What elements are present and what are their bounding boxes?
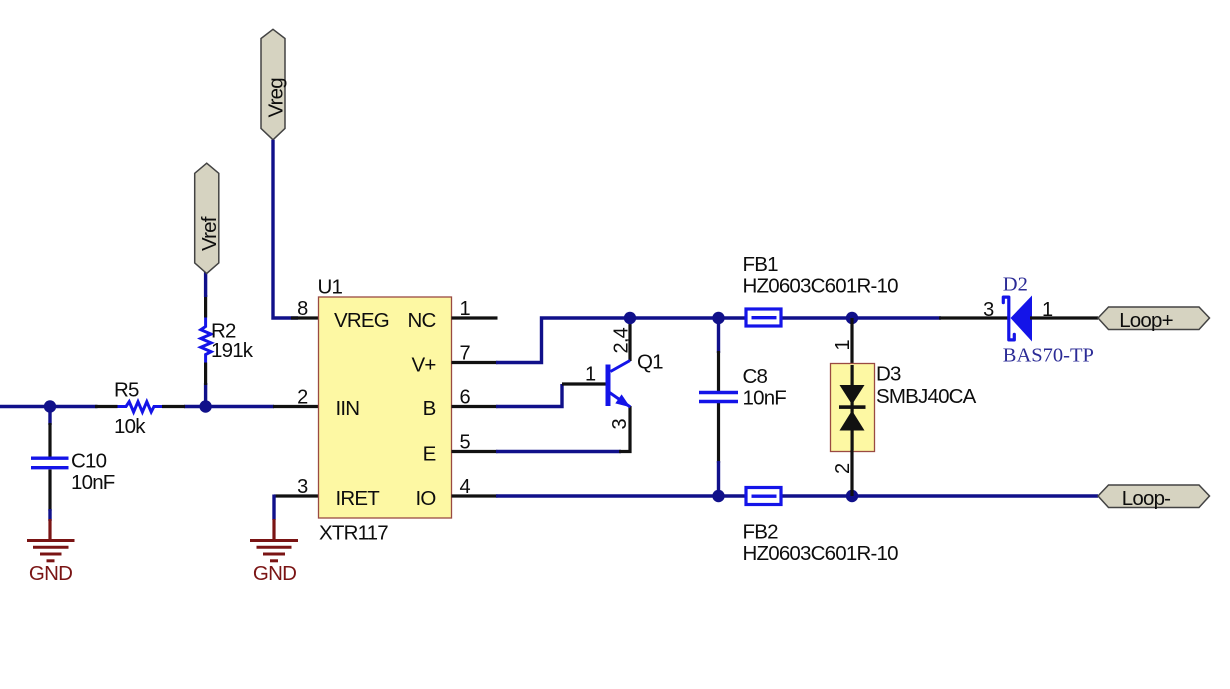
- svg-text:10k: 10k: [114, 415, 146, 438]
- svg-text:4: 4: [460, 476, 471, 498]
- svg-text:1: 1: [1042, 299, 1053, 321]
- svg-text:IO: IO: [415, 487, 435, 510]
- pin 3 stub: [274, 494, 319, 497]
- port Loop+: [1098, 307, 1210, 330]
- diode D2 schottky bar: [1003, 297, 1014, 340]
- svg-text:3: 3: [609, 419, 631, 430]
- wire R2 bottom: [204, 383, 207, 407]
- wire Q1 base stub: [562, 382, 606, 385]
- diode D2 triangle: [1011, 296, 1033, 342]
- diode D3 pin 1 lead: [850, 318, 853, 365]
- svg-text:HZ0603C601R-10: HZ0603C601R-10: [743, 542, 899, 565]
- wire C10 bottom: [48, 509, 51, 521]
- wire IO net: [496, 494, 1098, 497]
- svg-text:Q1: Q1: [637, 351, 663, 374]
- svg-text:D3: D3: [876, 363, 901, 386]
- pin 7 stub V+: [452, 361, 498, 364]
- svg-text:2: 2: [297, 387, 308, 409]
- node junction C8 top: [712, 312, 724, 324]
- svg-text:C10: C10: [71, 450, 107, 473]
- svg-text:2,4: 2,4: [611, 327, 633, 353]
- ferrite bead FB1: [746, 309, 781, 326]
- wire IIN net middle segment: [184, 405, 274, 408]
- net flag Vref: [195, 163, 219, 273]
- svg-text:8: 8: [297, 298, 308, 320]
- svg-text:C8: C8: [743, 365, 768, 388]
- pin 6 stub B: [452, 405, 498, 408]
- svg-text:IIN: IIN: [336, 397, 360, 420]
- node junction at C10: [44, 400, 56, 412]
- pin 1 stub NC: [452, 316, 498, 319]
- svg-text:Loop+: Loop+: [1119, 309, 1173, 332]
- svg-text:FB1: FB1: [743, 253, 779, 276]
- wire Vref to R2: [204, 272, 207, 297]
- svg-text:IRET: IRET: [336, 487, 381, 510]
- svg-text:191k: 191k: [211, 339, 254, 362]
- pin 2 stub: [273, 405, 319, 408]
- svg-text:SMBJ40CA: SMBJ40CA: [876, 385, 977, 408]
- wire IRET to GND2: [272, 495, 275, 521]
- diode D3 body box: [831, 364, 875, 452]
- svg-text:3: 3: [297, 476, 308, 498]
- ground GND1: [27, 519, 75, 561]
- svg-text:Vreg: Vreg: [264, 78, 287, 118]
- resistor R2 pin leads: [204, 295, 207, 318]
- wire Vreg vertical: [273, 140, 298, 318]
- svg-text:1: 1: [585, 364, 596, 386]
- pin 4 stub IO: [452, 494, 498, 497]
- svg-text:Vref: Vref: [198, 216, 221, 251]
- svg-text:HZ0603C601R-10: HZ0603C601R-10: [743, 275, 899, 298]
- wire C10 top: [48, 407, 51, 426]
- svg-text:B: B: [423, 397, 436, 420]
- capacitor C8: [699, 391, 738, 394]
- wire V+ net: [496, 318, 941, 363]
- wire Q1 emitter lead: [619, 406, 630, 452]
- diode D3 pin 2 lead: [850, 450, 853, 496]
- node junction C8 bottom: [712, 490, 724, 502]
- transistor Q1: [608, 361, 630, 408]
- node junction D3 bottom: [846, 490, 858, 502]
- svg-text:XTR117: XTR117: [319, 522, 388, 545]
- port Loop-: [1098, 485, 1210, 508]
- svg-text:E: E: [423, 443, 436, 466]
- wire Q1 collector lead: [628, 318, 631, 361]
- node junction at R2: [199, 400, 211, 412]
- resistor R5 pin leads: [95, 405, 118, 408]
- svg-text:V+: V+: [411, 354, 435, 377]
- diode D2 pin 1 lead: [1030, 316, 1098, 319]
- svg-text:6: 6: [460, 387, 471, 409]
- resistor R2: [201, 318, 211, 363]
- pin 5 stub E: [452, 450, 498, 453]
- svg-text:VREG: VREG: [334, 309, 389, 332]
- svg-text:2: 2: [832, 463, 854, 474]
- svg-text:10nF: 10nF: [743, 387, 787, 410]
- pin 8 stub: [291, 316, 319, 319]
- wire E net: [496, 450, 621, 453]
- svg-text:5: 5: [460, 432, 471, 454]
- capacitor C10 pin leads: [48, 423, 51, 457]
- svg-text:NC: NC: [407, 309, 436, 332]
- svg-text:FB2: FB2: [743, 521, 779, 544]
- ferrite bead FB2: [746, 488, 781, 505]
- svg-text:10nF: 10nF: [71, 471, 115, 494]
- svg-text:D2: D2: [1003, 274, 1028, 296]
- svg-text:3: 3: [983, 299, 994, 321]
- svg-text:1: 1: [832, 340, 854, 351]
- svg-text:7: 7: [460, 343, 471, 365]
- diode D2 pin 3 lead: [939, 316, 1009, 319]
- svg-text:BAS70-TP: BAS70-TP: [1003, 344, 1094, 366]
- ground GND2: [250, 519, 298, 561]
- net flag Vreg: [261, 29, 285, 140]
- wire B net: [496, 384, 562, 407]
- svg-text:1: 1: [460, 298, 471, 320]
- capacitor C8 pin leads: [717, 351, 720, 391]
- svg-text:GND: GND: [29, 562, 72, 585]
- resistor R5: [118, 402, 163, 412]
- node junction D3 top: [846, 312, 858, 324]
- wire C8 top: [717, 318, 720, 353]
- node junction Q1 collector: [624, 312, 636, 324]
- diode D3 TVS symbol: [839, 365, 866, 450]
- svg-text:Loop-: Loop-: [1122, 487, 1170, 510]
- svg-text:U1: U1: [318, 276, 343, 299]
- wire C8 bottom: [717, 461, 720, 496]
- wire IIN net left segment: [0, 405, 98, 408]
- op-amp U1 body: [319, 297, 452, 518]
- transistor Q1 emitter arrow: [615, 394, 630, 407]
- capacitor C10: [31, 457, 69, 460]
- svg-text:R5: R5: [114, 379, 139, 402]
- svg-text:GND: GND: [253, 562, 296, 585]
